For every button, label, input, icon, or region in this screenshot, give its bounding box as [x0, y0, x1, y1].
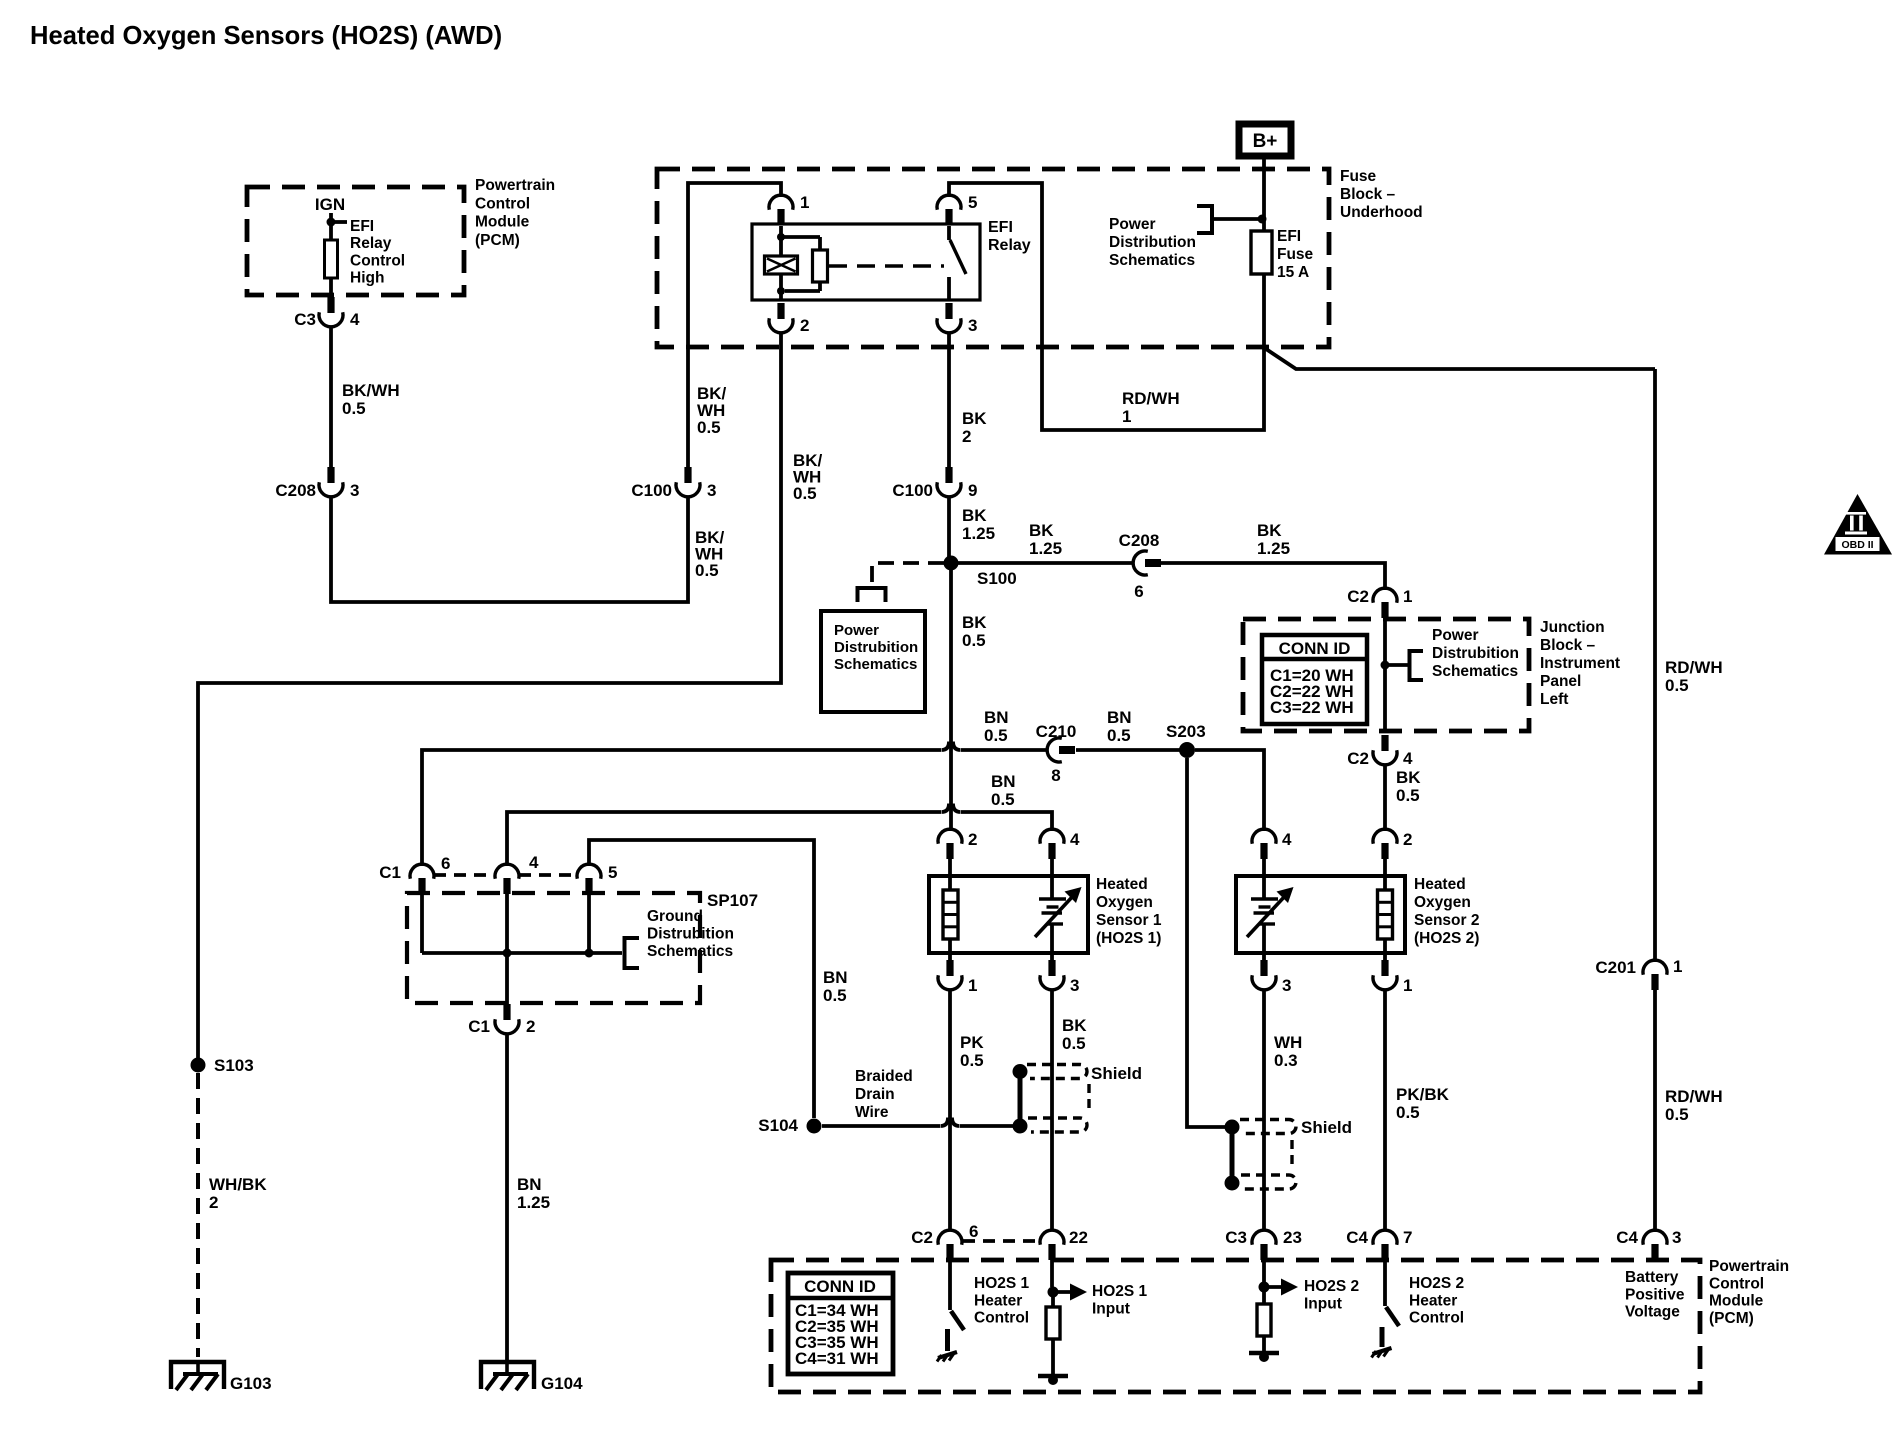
- svg-text:Junction: Junction: [1540, 619, 1605, 636]
- svg-text:S203: S203: [1166, 722, 1206, 741]
- OBD II triangle: [1824, 494, 1892, 555]
- svg-text:RD/WH: RD/WH: [1665, 1087, 1723, 1106]
- label Braided Drain Wire: [855, 1068, 913, 1121]
- relay coil: [765, 226, 798, 300]
- connector pin 22: [1040, 1228, 1088, 1260]
- svg-text:Control: Control: [1709, 1275, 1764, 1292]
- connector relay pin 1: [769, 193, 809, 225]
- svg-text:9: 9: [968, 481, 977, 500]
- label Junction Block - Instrument Panel Left: [1540, 619, 1620, 708]
- label BK 2: [962, 409, 987, 446]
- svg-text:5: 5: [968, 193, 977, 212]
- svg-text:Schematics: Schematics: [1432, 663, 1518, 680]
- label BK/WH 0.5 above C100-3: [697, 384, 727, 437]
- svg-text:6: 6: [441, 854, 450, 873]
- svg-text:0.5: 0.5: [793, 484, 817, 503]
- svg-text:15 A: 15 A: [1277, 264, 1309, 281]
- svg-text:0.5: 0.5: [991, 790, 1015, 809]
- svg-text:3: 3: [1672, 1228, 1681, 1247]
- wire WH 0.3 HO2S2-3 to C3-23: [1262, 989, 1266, 1231]
- svg-text:0.5: 0.5: [1396, 1103, 1420, 1122]
- svg-text:Power: Power: [1432, 627, 1479, 644]
- svg-text:Braided: Braided: [855, 1068, 913, 1085]
- label BN 1.25: [517, 1175, 550, 1212]
- wire PK/BK 0.5 HO2S2-1 to C4-7: [1383, 989, 1387, 1231]
- svg-text:S103: S103: [214, 1056, 254, 1075]
- splice S100: [944, 556, 1017, 589]
- svg-text:8: 8: [1051, 766, 1060, 785]
- svg-text:3: 3: [1282, 976, 1291, 995]
- junction dot in junction block: [1381, 661, 1390, 670]
- label BK 1.25 right: [1257, 521, 1290, 558]
- dashed branch S100 to power distribution: [872, 563, 944, 586]
- svg-text:C4: C4: [1346, 1228, 1368, 1247]
- wire C2-1 through junction block: [1383, 616, 1387, 733]
- svg-text:Schematics: Schematics: [834, 656, 917, 673]
- svg-text:2: 2: [962, 427, 971, 446]
- label BK 1.25 mid: [1029, 521, 1062, 558]
- resistor EFI Relay Control High: [325, 222, 338, 295]
- wire C100-3 up to relay pin 1: [688, 183, 781, 467]
- ground G104: [481, 1362, 583, 1393]
- signal ground HO2S1 input: [1038, 1375, 1068, 1385]
- svg-text:Heater: Heater: [974, 1292, 1022, 1309]
- svg-text:EFI: EFI: [350, 218, 374, 235]
- svg-text:2: 2: [526, 1017, 535, 1036]
- dashed link C1 pins: [434, 873, 577, 877]
- label HO2S 2 Heater Control: [1409, 1275, 1464, 1327]
- svg-text:Instrument: Instrument: [1540, 655, 1620, 672]
- resistor HO2S1 input: [1046, 1292, 1060, 1374]
- label Ground Distrubition Schematics: [647, 908, 734, 960]
- svg-text:Distrubition: Distrubition: [1432, 645, 1519, 662]
- connector C100 pin 3: [631, 467, 716, 500]
- svg-text:IGN: IGN: [315, 195, 345, 214]
- bracket to Power Distribution Schematics: [1197, 206, 1258, 233]
- HO2S1 sensor element: [1035, 859, 1082, 975]
- svg-text:1.25: 1.25: [962, 524, 995, 543]
- svg-text:(PCM): (PCM): [1709, 1310, 1754, 1327]
- svg-text:BK: BK: [1396, 768, 1421, 787]
- label Shield (HO2S1): [1091, 1064, 1142, 1083]
- svg-text:0.5: 0.5: [1396, 786, 1420, 805]
- svg-text:WH: WH: [1274, 1033, 1302, 1052]
- wire C1-5 to S104 line: [589, 840, 814, 1118]
- svg-text:RD/WH: RD/WH: [1665, 658, 1723, 677]
- wire relay pin 3 to C100-9: [947, 332, 951, 467]
- label Battery Positive Voltage: [1625, 1269, 1685, 1321]
- Fuse Block - Underhood dashed box: [657, 169, 1329, 347]
- label Power Distrubition Schematics (right): [1432, 627, 1519, 680]
- svg-text:C4: C4: [1616, 1228, 1638, 1247]
- connector HO2S1 pin 2: [938, 829, 977, 859]
- svg-text:Heated: Heated: [1414, 876, 1466, 893]
- svg-text:Input: Input: [1304, 1295, 1342, 1312]
- svg-text:C3: C3: [294, 310, 316, 329]
- svg-text:7: 7: [1403, 1228, 1412, 1247]
- svg-text:Schematics: Schematics: [647, 943, 733, 960]
- relay actuation dashed link: [829, 264, 944, 267]
- svg-text:Distrubition: Distrubition: [647, 926, 734, 943]
- svg-text:0.5: 0.5: [962, 631, 986, 650]
- svg-text:C2: C2: [1347, 749, 1369, 768]
- connector C201 pin 1: [1595, 957, 1682, 990]
- HO2S1 input node: [1048, 1260, 1088, 1301]
- connector C2 pin 1: [1347, 587, 1412, 618]
- svg-text:23: 23: [1283, 1228, 1302, 1247]
- svg-text:(HO2S 2): (HO2S 2): [1414, 930, 1479, 947]
- table CONN ID (PCM): [788, 1273, 893, 1374]
- svg-text:2: 2: [1403, 830, 1412, 849]
- label HO2S 2 Input: [1304, 1278, 1359, 1312]
- label Fuse Block - Underhood: [1340, 168, 1423, 221]
- svg-text:Schematics: Schematics: [1109, 252, 1195, 269]
- label BN 0.5 row1-left: [984, 708, 1009, 745]
- HO2S1 heater element: [943, 859, 958, 975]
- svg-text:0.5: 0.5: [697, 418, 721, 437]
- connector C208 pin 6: [1119, 531, 1161, 601]
- svg-text:6: 6: [1134, 582, 1143, 601]
- wire C208-3 to C100-3: [331, 496, 688, 602]
- svg-text:Heated: Heated: [1096, 876, 1148, 893]
- wire BN row2 C1-4 to HO2S1 pin4: [507, 804, 1052, 867]
- svg-text:4: 4: [1403, 749, 1413, 768]
- dashed wire WH/BK 2 to G103: [196, 1073, 200, 1357]
- svg-text:0.5: 0.5: [695, 561, 719, 580]
- connector HO2S2 pin 4: [1252, 829, 1292, 859]
- bracket to Power Distrubition Schematics (right): [1385, 651, 1423, 680]
- svg-text:1: 1: [1673, 957, 1682, 976]
- svg-text:G103: G103: [230, 1374, 272, 1393]
- connector C1 pin 5: [577, 863, 617, 894]
- svg-text:C1: C1: [468, 1017, 490, 1036]
- svg-text:Sensor 1: Sensor 1: [1096, 912, 1162, 929]
- fuse EFI Fuse 15 A: [1251, 231, 1272, 274]
- splice S203: [1166, 722, 1206, 758]
- svg-text:C210: C210: [1036, 722, 1077, 741]
- label BK 0.5 shielded: [1062, 1016, 1087, 1053]
- label Power Distribution Schematics: [1109, 216, 1196, 269]
- svg-text:PK/BK: PK/BK: [1396, 1085, 1450, 1104]
- wire C1-4 bus down to C1-2: [505, 953, 509, 1004]
- svg-text:Panel: Panel: [1540, 673, 1581, 690]
- svg-text:Sensor 2: Sensor 2: [1414, 912, 1479, 929]
- svg-text:HO2S 1: HO2S 1: [1092, 1283, 1148, 1300]
- connector HO2S2 pin 2: [1373, 829, 1412, 859]
- wire C210 to S203: [1076, 748, 1180, 752]
- connector C100 pin 9: [892, 467, 977, 500]
- svg-text:Battery: Battery: [1625, 1269, 1679, 1286]
- svg-text:Module: Module: [475, 214, 530, 231]
- wire RD/WH to right edge: [1263, 347, 1655, 369]
- svg-text:Control: Control: [1409, 1310, 1464, 1327]
- svg-text:BN: BN: [517, 1175, 542, 1194]
- label Power Distrubition Schematics(box): [834, 622, 918, 673]
- svg-text:C4=31 WH: C4=31 WH: [795, 1349, 879, 1368]
- PCM (bottom) dashed box: [771, 1260, 1700, 1392]
- svg-text:(PCM): (PCM): [475, 232, 520, 249]
- label Powertrain Control Module (PCM): [475, 177, 555, 249]
- svg-text:5: 5: [608, 863, 617, 882]
- splice S103: [191, 1056, 254, 1075]
- svg-text:S104: S104: [758, 1116, 798, 1135]
- svg-text:SP107: SP107: [707, 891, 758, 910]
- box Power Distrubition Schematics: [821, 611, 925, 712]
- svg-text:0.5: 0.5: [1062, 1034, 1086, 1053]
- svg-text:High: High: [350, 270, 384, 287]
- connector C1 pin 6: [379, 854, 450, 894]
- svg-text:Ground: Ground: [647, 908, 703, 925]
- svg-text:Underhood: Underhood: [1340, 204, 1423, 221]
- svg-text:S100: S100: [977, 569, 1017, 588]
- shield drain HO2S1: [1013, 1064, 1028, 1134]
- svg-text:0.5: 0.5: [823, 986, 847, 1005]
- svg-text:0.3: 0.3: [1274, 1051, 1298, 1070]
- connector C208 pin 3: [275, 467, 359, 500]
- wire C2-4 to HO2S2 pin 2: [1383, 764, 1387, 831]
- svg-text:Control: Control: [350, 252, 405, 269]
- svg-text:Module: Module: [1709, 1293, 1764, 1310]
- svg-text:Powertrain: Powertrain: [475, 177, 555, 194]
- shield (HO2S2) dashed cylinder: [1240, 1120, 1296, 1190]
- svg-text:1: 1: [1403, 976, 1412, 995]
- ground G103: [171, 1362, 272, 1393]
- svg-text:Heated Oxygen Sensors (HO2S) (: Heated Oxygen Sensors (HO2S) (AWD): [30, 22, 502, 50]
- node IGN: [327, 213, 348, 227]
- svg-text:4: 4: [350, 310, 360, 329]
- svg-text:B+: B+: [1253, 131, 1278, 152]
- wire C201-1 to C4-3: [1653, 990, 1657, 1232]
- svg-text:Power: Power: [1109, 216, 1156, 233]
- connector C2 pin 4: [1347, 735, 1413, 768]
- svg-text:2: 2: [209, 1193, 218, 1212]
- svg-text:Control: Control: [475, 195, 530, 212]
- svg-text:Control: Control: [974, 1310, 1029, 1327]
- svg-text:CONN ID: CONN ID: [1279, 639, 1351, 658]
- svg-text:0.5: 0.5: [1107, 726, 1131, 745]
- label BN 0.5 S104 wire: [823, 968, 848, 1005]
- svg-text:Block –: Block –: [1340, 186, 1396, 203]
- Junction Block dashed box: [1243, 619, 1529, 731]
- shield (HO2S1) dashed cylinder: [1027, 1065, 1089, 1133]
- bracket above power distribution box: [858, 588, 886, 602]
- resistor HO2S2 input: [1257, 1287, 1271, 1351]
- wire C1-2 to G104: [505, 1033, 509, 1360]
- svg-text:Positive: Positive: [1625, 1286, 1685, 1303]
- svg-text:22: 22: [1069, 1228, 1088, 1247]
- svg-text:Power: Power: [834, 622, 879, 639]
- table CONN ID (junction block): [1262, 635, 1367, 724]
- svg-text:1: 1: [1403, 587, 1412, 606]
- svg-text:Block –: Block –: [1540, 637, 1596, 654]
- svg-text:0.5: 0.5: [984, 726, 1008, 745]
- signal ground HO2S2 input: [1249, 1352, 1279, 1362]
- svg-text:BN: BN: [991, 772, 1016, 791]
- bracket to Ground Distrubition Schematics: [625, 938, 640, 968]
- braided drain wire: [822, 1118, 1013, 1127]
- svg-text:BN: BN: [984, 708, 1009, 727]
- svg-text:OBD II: OBD II: [1841, 539, 1873, 551]
- svg-text:BK/WH: BK/WH: [342, 381, 400, 400]
- svg-text:1: 1: [800, 193, 809, 212]
- battery feed B+: [1239, 124, 1291, 156]
- ground distribution bus: [422, 878, 622, 958]
- wire B+ to fuse: [1262, 159, 1266, 231]
- svg-text:Distrubition: Distrubition: [834, 639, 918, 656]
- label BK 0.5: [962, 613, 987, 650]
- svg-text:C100: C100: [892, 481, 933, 500]
- svg-text:BK: BK: [1062, 1016, 1087, 1035]
- svg-text:C2: C2: [911, 1228, 933, 1247]
- label Heated Oxygen Sensor 2 (HO2S 2): [1414, 876, 1479, 947]
- connector C3 pin 23: [1225, 1228, 1302, 1260]
- wire S203 to HO2S2 shield: [1187, 758, 1225, 1127]
- label RD/WH 0.5 (upper): [1665, 658, 1723, 695]
- relay coil resistor: [781, 237, 828, 291]
- connector C2 pin 6: [911, 1222, 978, 1260]
- svg-text:C208: C208: [1119, 531, 1160, 550]
- svg-text:C3=22 WH: C3=22 WH: [1270, 698, 1354, 717]
- SP107 dashed box: [407, 893, 700, 1003]
- svg-text:4: 4: [1070, 830, 1080, 849]
- label IGN: [315, 195, 345, 214]
- label RD/WH 1: [1122, 389, 1180, 426]
- title: [30, 22, 502, 50]
- connector C4 pin 7: [1346, 1228, 1412, 1260]
- svg-text:2: 2: [800, 316, 809, 335]
- svg-text:1.25: 1.25: [517, 1193, 550, 1212]
- svg-text:3: 3: [350, 481, 359, 500]
- svg-text:Shield: Shield: [1091, 1064, 1142, 1083]
- label WH 0.3: [1274, 1033, 1302, 1070]
- sensor HO2S1 box: [929, 876, 1088, 953]
- connector C1 pin 4: [495, 853, 539, 894]
- connector C210 pin 8: [1036, 722, 1077, 785]
- shield drain HO2S2: [1225, 1120, 1240, 1191]
- svg-text:Wire: Wire: [855, 1104, 889, 1121]
- HO2S2 heater element: [1378, 859, 1393, 975]
- svg-text:4: 4: [529, 853, 539, 872]
- svg-text:C2: C2: [1347, 587, 1369, 606]
- svg-text:3: 3: [1070, 976, 1079, 995]
- label Shield (HO2S2): [1301, 1118, 1352, 1137]
- svg-text:BN: BN: [823, 968, 848, 987]
- wire PK 0.5 HO2S1-1 to C2-6: [948, 989, 952, 1231]
- label EFI Fuse 15 A: [1277, 228, 1314, 281]
- svg-text:3: 3: [707, 481, 716, 500]
- svg-text:1: 1: [1122, 407, 1131, 426]
- svg-text:HO2S 2: HO2S 2: [1409, 1275, 1464, 1292]
- svg-text:BK: BK: [1257, 521, 1282, 540]
- sensor HO2S2 box: [1236, 876, 1405, 953]
- svg-text:0.5: 0.5: [1665, 676, 1689, 695]
- PCM (top) dashed box: [247, 187, 464, 295]
- wire relay pin 2 down-left to S103: [198, 332, 781, 1064]
- svg-text:(HO2S 1): (HO2S 1): [1096, 930, 1161, 947]
- switch HO2S2 heater control: [1372, 1261, 1400, 1358]
- svg-text:Powertrain: Powertrain: [1709, 1258, 1789, 1275]
- label SP107: [707, 891, 758, 910]
- label BK 0.5 below C2-4: [1396, 768, 1421, 805]
- HO2S2 sensor element: [1247, 859, 1294, 975]
- wire C208-6 to C2-1: [1161, 563, 1385, 590]
- svg-text:Voltage: Voltage: [1625, 1304, 1680, 1321]
- svg-text:Left: Left: [1540, 691, 1568, 708]
- connector C3 pin 4: [294, 297, 360, 329]
- wire S100 to C208-6: [958, 561, 1134, 565]
- relay EFI Relay box: [752, 224, 980, 300]
- svg-text:HO2S 2: HO2S 2: [1304, 1278, 1359, 1295]
- svg-text:Fuse: Fuse: [1340, 168, 1377, 185]
- svg-text:WH/BK: WH/BK: [209, 1175, 267, 1194]
- connector C4 pin 3: [1616, 1228, 1681, 1260]
- junction on B+ wire: [1258, 215, 1267, 224]
- label EFI Relay Control High: [350, 218, 405, 287]
- svg-text:EFI: EFI: [988, 219, 1013, 236]
- label BN 0.5 row2: [991, 772, 1016, 809]
- svg-text:Distribution: Distribution: [1109, 234, 1196, 251]
- svg-text:Relay: Relay: [988, 237, 1031, 254]
- svg-text:0.5: 0.5: [342, 399, 366, 418]
- svg-text:G104: G104: [541, 1374, 583, 1393]
- connector relay pin 3: [937, 303, 977, 335]
- label Heated Oxygen Sensor 1 (HO2S 1): [1096, 876, 1162, 947]
- svg-text:C1: C1: [379, 863, 401, 882]
- svg-text:C208: C208: [275, 481, 316, 500]
- svg-text:3: 3: [968, 316, 977, 335]
- svg-text:C100: C100: [631, 481, 672, 500]
- dashed link C2-6 to 22: [963, 1239, 1039, 1243]
- svg-text:BK: BK: [962, 409, 987, 428]
- svg-text:Oxygen: Oxygen: [1096, 894, 1153, 911]
- connector C1 pin 2: [468, 1004, 535, 1036]
- label WH/BK 2: [209, 1175, 267, 1212]
- svg-text:0.5: 0.5: [960, 1051, 984, 1070]
- svg-text:Input: Input: [1092, 1300, 1130, 1317]
- svg-text:Oxygen: Oxygen: [1414, 894, 1471, 911]
- label BK/WH 0.5 below C100-3: [695, 528, 725, 580]
- label BK/WH 0.5 pin2 wire: [793, 451, 823, 503]
- label BK/WH 0.5: [342, 381, 400, 418]
- svg-text:BK: BK: [962, 506, 987, 525]
- svg-text:PK: PK: [960, 1033, 984, 1052]
- svg-text:CONN ID: CONN ID: [804, 1277, 876, 1296]
- svg-text:BN: BN: [1107, 708, 1132, 727]
- svg-text:EFI: EFI: [1277, 228, 1301, 245]
- connector HO2S2 pin 1: [1373, 960, 1412, 995]
- svg-text:1: 1: [968, 976, 977, 995]
- svg-text:HO2S 1: HO2S 1: [974, 1275, 1030, 1292]
- relay switch: [949, 226, 966, 300]
- connector HO2S1 pin 3: [1040, 960, 1079, 995]
- connector HO2S1 pin 1: [938, 960, 977, 995]
- wire BK 0.5 HO2S1-3 to pin22: [1050, 989, 1054, 1231]
- wire RD/WH 0.5 down right side: [1653, 369, 1657, 962]
- label BK 1.25 below C100-9: [962, 506, 995, 543]
- svg-text:Heater: Heater: [1409, 1292, 1457, 1309]
- HO2S2 input node: [1259, 1260, 1299, 1296]
- label PK 0.5: [960, 1033, 984, 1070]
- switch HO2S1 heater control: [937, 1260, 964, 1362]
- svg-text:2: 2: [968, 830, 977, 849]
- connector relay pin 2: [769, 303, 809, 335]
- wire S100 down BK 0.5: [949, 570, 953, 831]
- svg-text:RD/WH: RD/WH: [1122, 389, 1180, 408]
- label Powertrain Control Module (PCM) bottom: [1709, 1258, 1789, 1327]
- wire below fuse: [949, 183, 1264, 430]
- wire BK/WH 0.5 C3-4 to C208-3: [329, 326, 333, 467]
- wire S100 branch to HO2S1 pin2: [949, 859, 951, 876]
